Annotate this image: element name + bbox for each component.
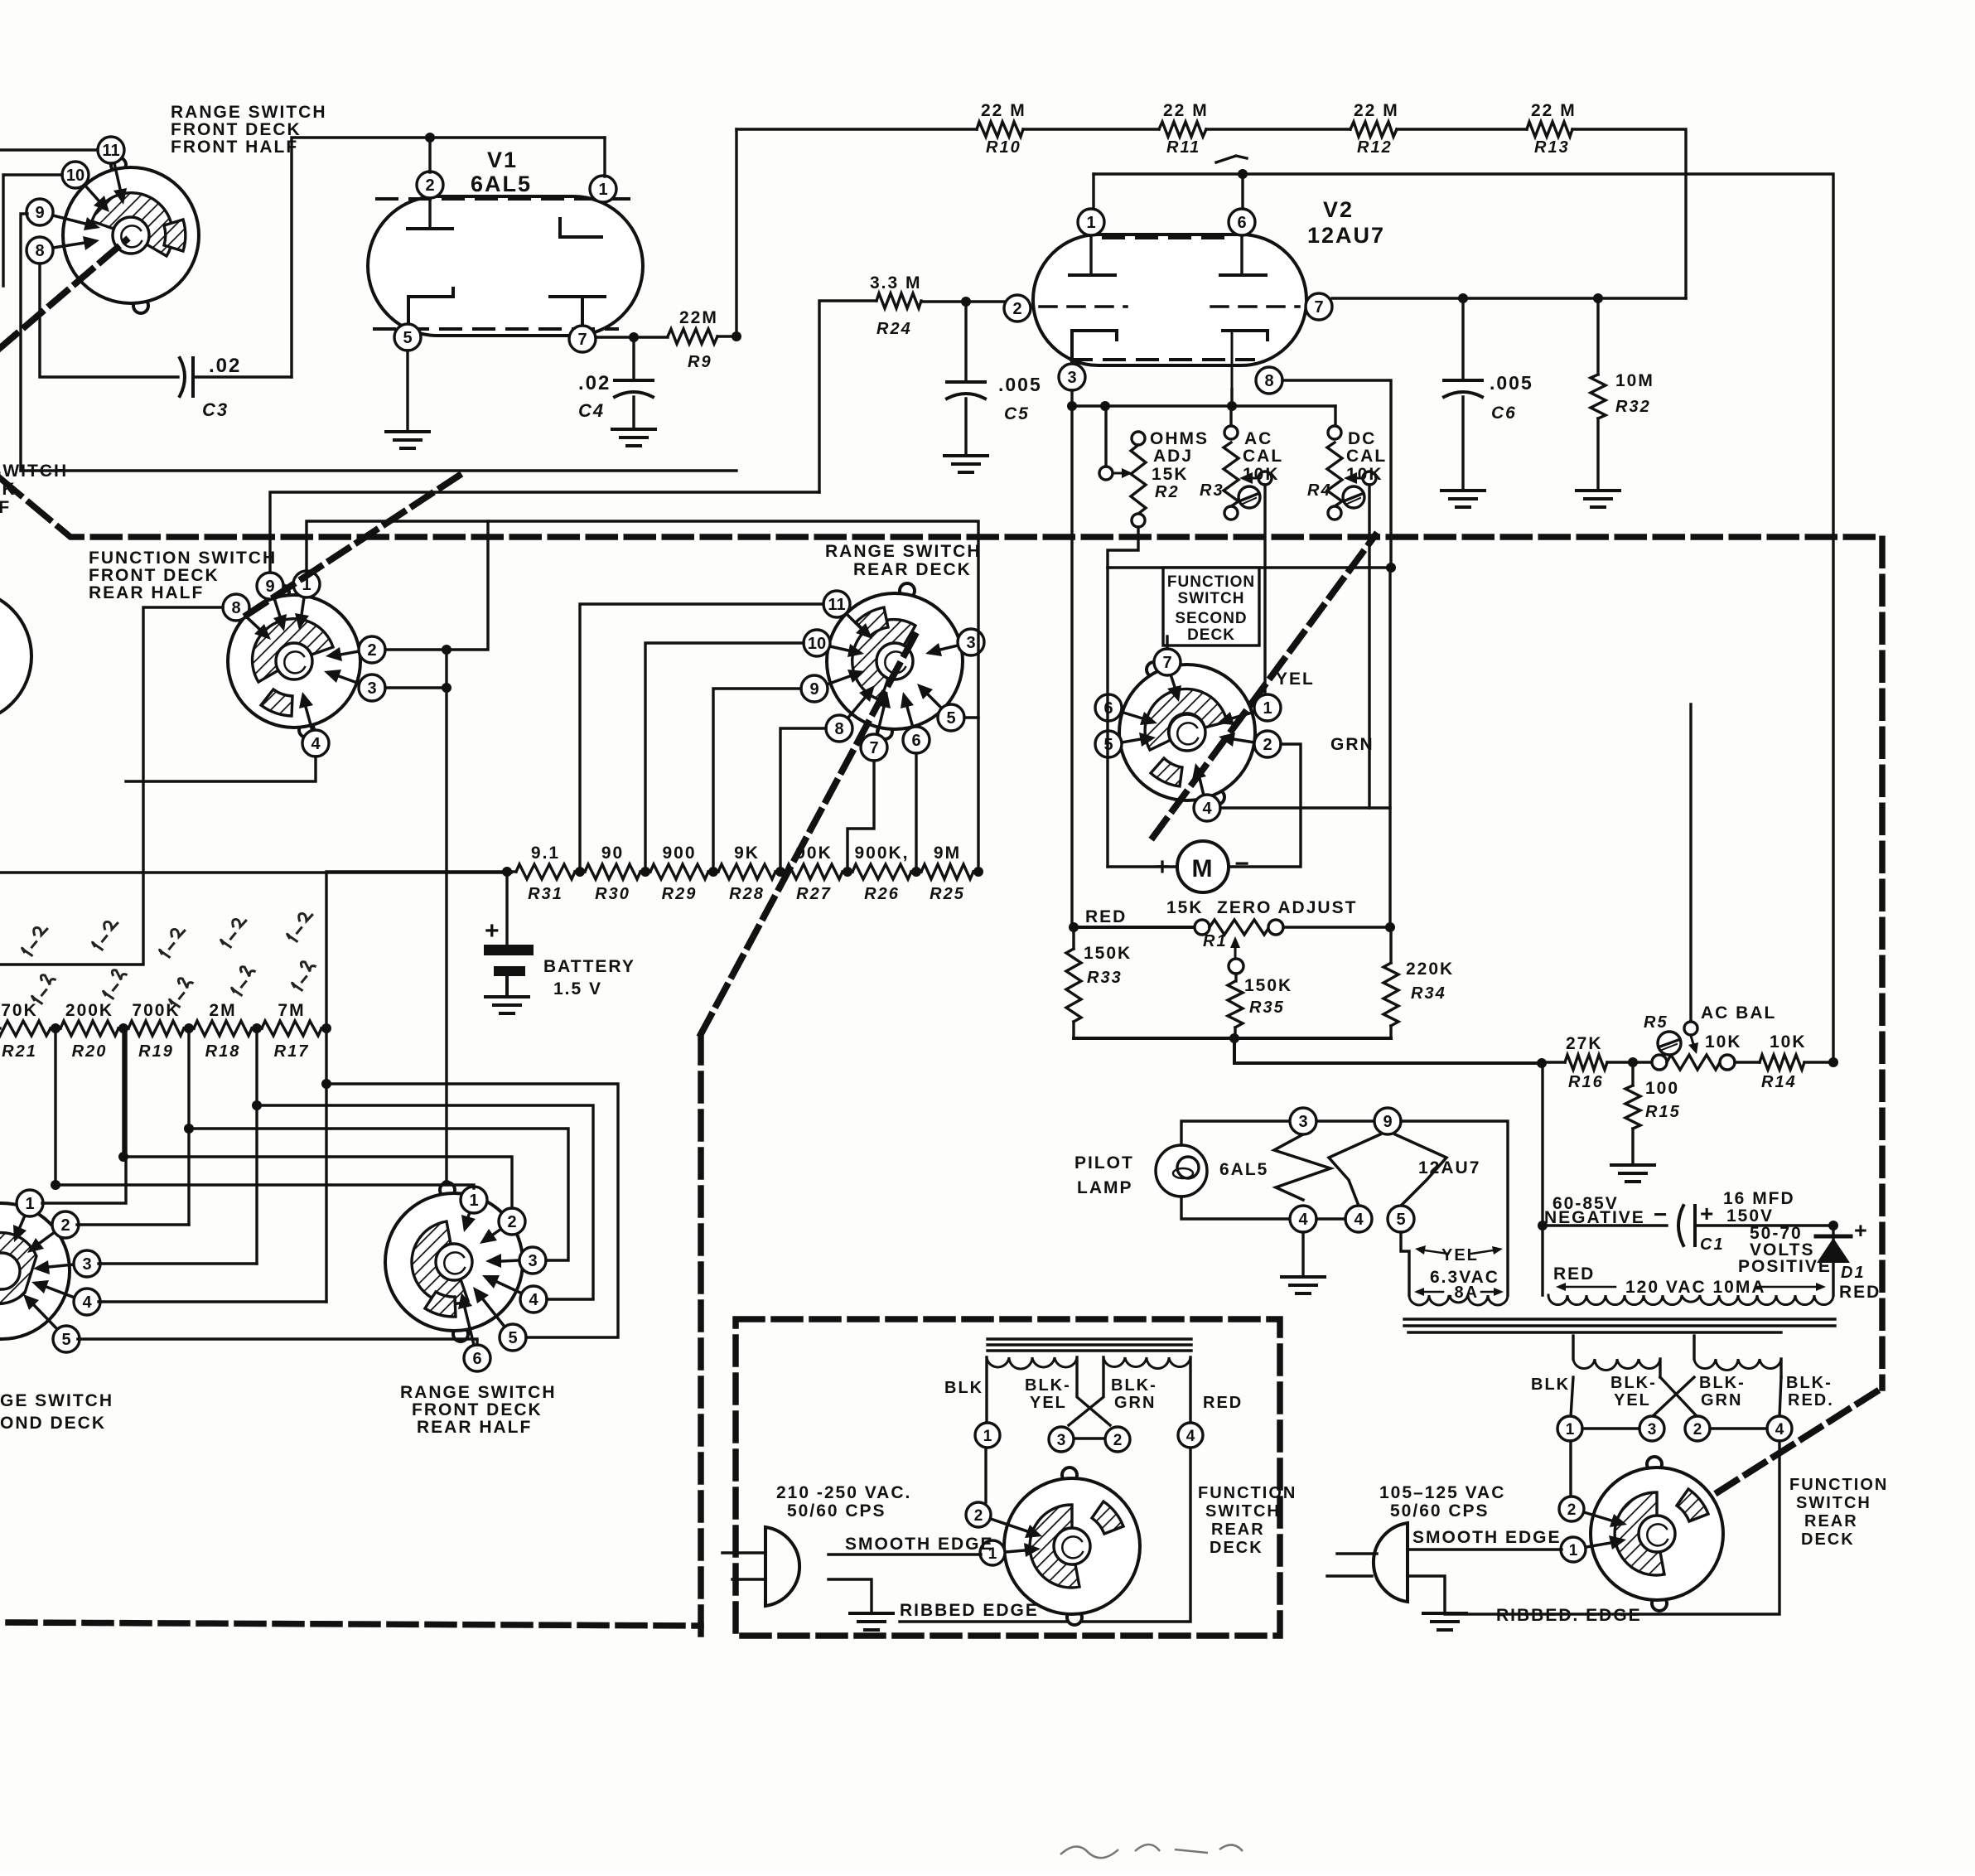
- resistor R16 27K: [1565, 1034, 1607, 1091]
- svg-text:15K: 15K: [1152, 465, 1189, 484]
- rotary switch FUNCTION SWITCH FRONT DECK FRONT HALF (cut at edge): [0, 462, 68, 723]
- svg-text:R34: R34: [1411, 984, 1446, 1003]
- diode D1: [1816, 1218, 1881, 1302]
- svg-text:4: 4: [82, 1293, 92, 1312]
- svg-text:OND DECK: OND DECK: [0, 1414, 106, 1433]
- svg-text:6: 6: [472, 1350, 481, 1368]
- dashed box 210-250VAC option: [736, 1319, 1280, 1636]
- svg-text:+: +: [1854, 1218, 1869, 1243]
- svg-text:FUNCTION SWITCH: FUNCTION SWITCH: [0, 462, 68, 481]
- wire divider taps to lower switches: [54, 1028, 56, 1185]
- svg-text:FUNCTION SWITCH: FUNCTION SWITCH: [89, 549, 277, 568]
- svg-text:R18: R18: [205, 1042, 241, 1061]
- ground at R15: [1611, 1163, 1654, 1167]
- wire FS front pin3 junction: [385, 686, 447, 689]
- wire FS2 pin2 to meter minus: [1229, 744, 1301, 867]
- svg-text:REAR: REAR: [1804, 1512, 1858, 1530]
- svg-text:ADJ: ADJ: [1153, 447, 1193, 466]
- svg-text:FRONT DECK: FRONT DECK: [171, 120, 302, 139]
- svg-text:FUNCTION: FUNCTION: [1167, 573, 1255, 591]
- svg-text:10: 10: [66, 167, 85, 185]
- wire R24 to V2 pin2: [921, 300, 1004, 302]
- svg-text:3: 3: [1298, 1113, 1307, 1131]
- svg-text:PILOT: PILOT: [1074, 1153, 1134, 1172]
- svg-text:V1: V1: [487, 147, 518, 172]
- svg-text:REAR HALF: REAR HALF: [89, 583, 204, 602]
- svg-text:2: 2: [974, 1507, 983, 1525]
- wire second-deck pin3: [99, 1262, 257, 1264]
- svg-text:2: 2: [507, 1213, 516, 1231]
- svg-text:.8A: .8A: [1448, 1284, 1479, 1302]
- svg-text:POSITIVE: POSITIVE: [1738, 1257, 1832, 1276]
- ground at C4: [612, 428, 655, 431]
- svg-text:FRONT HALF: FRONT HALF: [171, 138, 298, 157]
- svg-text:12AU7: 12AU7: [1418, 1158, 1480, 1177]
- wire V1 pin2 riser: [428, 138, 431, 172]
- svg-text:3: 3: [528, 1252, 537, 1270]
- wire FS2 pin7 stub: [1166, 636, 1168, 649]
- svg-text:10: 10: [808, 635, 826, 653]
- svg-text:REAR HALF: REAR HALF: [417, 1418, 532, 1437]
- svg-text:RANGE SWITCH: RANGE SWITCH: [171, 103, 327, 122]
- svg-text:DECK: DECK: [1187, 626, 1235, 644]
- tube V2 12AU7: [1004, 197, 1385, 394]
- svg-text:3: 3: [82, 1255, 91, 1274]
- svg-text:200K: 200K: [65, 1001, 113, 1020]
- winding primary BLK-GRN/RED: [1103, 1357, 1190, 1369]
- svg-text:9: 9: [35, 204, 44, 222]
- svg-text:FRONT DECK: FRONT DECK: [412, 1400, 543, 1419]
- svg-text:50/60 CPS: 50/60 CPS: [1390, 1501, 1490, 1521]
- resistor R28 9K: [713, 844, 780, 903]
- svg-text:3: 3: [367, 679, 376, 698]
- svg-text:R13: R13: [1534, 138, 1570, 157]
- transformer primary core 210 box: [987, 1339, 1191, 1351]
- resistor R14 10K: [1735, 1032, 1833, 1091]
- svg-text:7: 7: [1162, 654, 1171, 672]
- svg-text:BLK: BLK: [1531, 1376, 1570, 1394]
- svg-text:R33: R33: [1087, 969, 1123, 987]
- svg-text:LAMP: LAMP: [1077, 1178, 1133, 1197]
- resistor R15 100: [1625, 1062, 1681, 1165]
- svg-text:1.5 V: 1.5 V: [553, 979, 602, 998]
- svg-text:1: 1: [1569, 1542, 1578, 1559]
- svg-text:9.1: 9.1: [531, 844, 560, 863]
- wire R24 input from divider bus: [819, 301, 876, 492]
- wire V1 pin1 riser: [603, 138, 606, 176]
- svg-text:R29: R29: [662, 885, 698, 903]
- svg-text:GRN: GRN: [1114, 1394, 1156, 1412]
- wire FS front pin8: [0, 607, 223, 965]
- ground at R32: [1577, 489, 1620, 492]
- wire second-deck pin4: [99, 1300, 326, 1303]
- svg-text:.005: .005: [998, 374, 1042, 395]
- svg-text:150V: 150V: [1726, 1206, 1774, 1226]
- svg-text:10K: 10K: [1770, 1032, 1807, 1052]
- wire V2 pin7 grid bus: [1332, 297, 1686, 299]
- svg-text:BLK-: BLK-: [1111, 1376, 1157, 1395]
- svg-text:10K: 10K: [1346, 465, 1383, 484]
- svg-text:9: 9: [1383, 1113, 1392, 1131]
- svg-text:1: 1: [598, 181, 607, 199]
- wire R2 bottom to cathode bus: [1108, 527, 1138, 568]
- wire FS front pin2 to bus riser: [385, 521, 488, 650]
- svg-text:11: 11: [828, 596, 845, 614]
- svg-text:3: 3: [1057, 1432, 1066, 1449]
- svg-text:4: 4: [1354, 1211, 1364, 1229]
- resistor R17 7M: [257, 1001, 326, 1061]
- svg-text:RED: RED: [1553, 1264, 1595, 1284]
- svg-text:2: 2: [367, 641, 376, 660]
- svg-text:+: +: [1700, 1201, 1715, 1226]
- pencil note bottom: [1060, 1845, 1243, 1858]
- svg-text:SWITCH: SWITCH: [1178, 590, 1245, 607]
- svg-text:2: 2: [425, 176, 434, 195]
- wire second-deck pin1: [42, 1028, 126, 1203]
- switch shaft dashed rear deck: [701, 630, 918, 1034]
- svg-text:8: 8: [35, 242, 44, 260]
- wire term4 to ribbed edge: [900, 1448, 1190, 1622]
- wires primary to terminals 105: [1571, 1377, 1573, 1417]
- svg-text:22 M: 22 M: [1163, 101, 1209, 120]
- wire lamp bottom to pin4: [1181, 1197, 1290, 1219]
- svg-text:CAL: CAL: [1346, 447, 1387, 466]
- svg-text:C3: C3: [202, 399, 229, 420]
- svg-text:R12: R12: [1357, 138, 1393, 157]
- svg-text:.02: .02: [578, 372, 611, 394]
- svg-text:BLK: BLK: [944, 1379, 983, 1397]
- svg-text:R11: R11: [1166, 138, 1200, 157]
- terminal circles 210: [975, 1423, 1000, 1448]
- svg-text:DECK: DECK: [1801, 1530, 1855, 1549]
- svg-text:RANGE SWITCH: RANGE SWITCH: [825, 542, 982, 561]
- wire rear deck pin11 to divider: [580, 604, 823, 872]
- svg-text:R9: R9: [688, 353, 712, 371]
- svg-text:3.3 M: 3.3 M: [870, 273, 922, 293]
- tube V1 6AL5: [368, 147, 643, 352]
- capacitor C1 16MFD 150V: [1543, 1189, 1833, 1254]
- svg-text:6AL5: 6AL5: [471, 172, 532, 196]
- svg-text:.005: .005: [1490, 372, 1533, 394]
- wire rear deck pin5 stub: [964, 716, 978, 718]
- ground at V1 pin5: [386, 430, 429, 433]
- wire pin8 cathode lead: [1230, 389, 1233, 406]
- svg-text:105–125 VAC: 105–125 VAC: [1379, 1483, 1505, 1502]
- wire R17 right to battery bus: [326, 872, 507, 1028]
- heater 12AU7: [1329, 1108, 1480, 1232]
- wire pin3 to pin9: [1316, 1119, 1374, 1122]
- svg-text:YEL: YEL: [1441, 1246, 1479, 1264]
- wire meter plus lead: [1108, 865, 1177, 868]
- rotary switch FUNCTION SWITCH REAR DECK (210 box): [966, 1467, 1140, 1625]
- svg-text:3: 3: [1067, 369, 1076, 387]
- resistor R12 22M: [1350, 101, 1399, 157]
- wire plug lower to ground 210: [828, 1579, 872, 1611]
- svg-text:1: 1: [1263, 699, 1272, 718]
- AC plug 210: [722, 1527, 799, 1606]
- svg-text:GRN: GRN: [1330, 735, 1374, 754]
- svg-text:2: 2: [1012, 300, 1021, 318]
- svg-text:R25: R25: [930, 885, 965, 903]
- svg-text:RED: RED: [1085, 907, 1127, 926]
- svg-text:SWITCH: SWITCH: [1796, 1494, 1871, 1512]
- svg-text:YEL: YEL: [1030, 1394, 1067, 1412]
- svg-text:1: 1: [1566, 1421, 1575, 1438]
- svg-text:6: 6: [911, 732, 920, 750]
- svg-text:6AL5: 6AL5: [1219, 1160, 1268, 1179]
- wires primary to terminals 210: [985, 1357, 987, 1423]
- wire left bus to battery row: [0, 871, 511, 873]
- resistor R25 9M: [916, 844, 978, 903]
- wire tap2 to RS rear-half pin2: [123, 1157, 512, 1208]
- svg-text:YEL: YEL: [1276, 670, 1315, 689]
- svg-text:FUNCTION: FUNCTION: [1789, 1476, 1888, 1494]
- svg-text:SWITCH: SWITCH: [1205, 1502, 1281, 1521]
- svg-text:90: 90: [601, 844, 624, 863]
- winding 6.3VAC: [1409, 1245, 1508, 1305]
- svg-text:4: 4: [529, 1291, 538, 1309]
- wire plug to switch pin1 210: [828, 1553, 981, 1555]
- svg-text:FUNCTION: FUNCTION: [1198, 1484, 1297, 1502]
- svg-text:D1: D1: [1841, 1264, 1866, 1282]
- svg-text:−: −: [1234, 850, 1251, 878]
- rotary switch S1 RANGE SWITCH FRONT DECK FRONT HALF: [27, 103, 327, 313]
- svg-text:R24: R24: [876, 320, 912, 338]
- svg-text:9: 9: [809, 680, 818, 699]
- svg-text:BLK-: BLK-: [1610, 1374, 1657, 1392]
- svg-text:120 VAC 10MA: 120 VAC 10MA: [1625, 1278, 1766, 1297]
- wire term1 to switch pin2: [984, 1448, 987, 1502]
- svg-text:RED.: RED.: [1788, 1391, 1834, 1409]
- wire tap3 to RS rear-half pin3: [189, 1129, 568, 1260]
- svg-text:R3: R3: [1200, 481, 1224, 500]
- resistor R19 700K: [123, 1001, 189, 1061]
- winding primary BLK/BLK-YEL: [987, 1357, 1077, 1369]
- wire rear deck pin10 to divider: [645, 643, 804, 872]
- svg-text:1: 1: [1086, 214, 1095, 232]
- wire tap5 to RS rear-half pin5: [326, 1084, 618, 1337]
- svg-text:2M: 2M: [209, 1001, 236, 1020]
- svg-text:GRN: GRN: [1701, 1391, 1742, 1409]
- resistor R10 22M: [977, 101, 1026, 157]
- potentiometer R1 15K ZERO ADJUST: [1074, 898, 1390, 974]
- svg-text:5: 5: [946, 709, 955, 728]
- svg-text:R19: R19: [138, 1042, 174, 1061]
- pilot lamp: [1074, 1145, 1207, 1197]
- capacitor C3 .02: [180, 355, 292, 420]
- svg-text:R21: R21: [2, 1042, 37, 1061]
- wire rear deck pin8 to divider: [780, 728, 826, 872]
- svg-text:R32: R32: [1615, 398, 1651, 416]
- svg-text:RED: RED: [1203, 1394, 1243, 1412]
- switch shaft dashed FS second deck: [1153, 535, 1375, 837]
- wire D1 to winding: [1832, 1226, 1834, 1295]
- resistor R9 22M: [668, 308, 718, 371]
- rotary switch FUNCTION SWITCH SECOND DECK: [1095, 568, 1281, 821]
- terminal circles 105: [1557, 1416, 1582, 1441]
- svg-text:7: 7: [869, 739, 878, 757]
- chassis dashed boundary: [0, 478, 1882, 1634]
- svg-text:1: 1: [983, 1428, 992, 1445]
- wire pin9 down to bus A: [21, 214, 27, 471]
- wire pin11 to left edge: [0, 148, 98, 151]
- wire R9 to node: [717, 335, 736, 337]
- svg-text:12AU7: 12AU7: [1307, 223, 1385, 248]
- svg-text:2: 2: [1693, 1421, 1702, 1438]
- wire bus A node to R9 junction: [21, 469, 736, 471]
- svg-text:R28: R28: [729, 885, 765, 903]
- svg-text:C4: C4: [578, 400, 605, 421]
- svg-text:22 M: 22 M: [1531, 101, 1577, 120]
- resistor R24 3.3M: [870, 273, 922, 338]
- wire FS front pin4: [126, 757, 316, 781]
- svg-text:7: 7: [577, 331, 587, 349]
- svg-text:4: 4: [1202, 800, 1212, 818]
- rotary switch FUNCTION SWITCH FRONT DECK REAR HALF: [89, 549, 385, 757]
- svg-text:R1: R1: [1203, 932, 1228, 950]
- svg-text:REAR DECK: REAR DECK: [853, 560, 972, 579]
- rotary switch RANGE SWITCH SECOND DECK (cut at edge): [0, 1190, 113, 1433]
- svg-text:100: 100: [1645, 1079, 1679, 1098]
- wire GRN/R34 riser: [1388, 568, 1391, 927]
- battery 1.5V: [484, 917, 635, 998]
- wire V2 plate bus to B+ rail: [1094, 174, 1833, 1061]
- resistor R11 22M: [1159, 101, 1209, 157]
- svg-text:CAL: CAL: [1243, 447, 1283, 466]
- resistor R31 9.1: [511, 844, 580, 903]
- svg-text:C1: C1: [1700, 1235, 1725, 1254]
- svg-text:16 MFD: 16 MFD: [1723, 1189, 1795, 1208]
- ground at plug 210: [850, 1612, 893, 1615]
- svg-text:SMOOTH EDGE: SMOOTH EDGE: [1412, 1528, 1562, 1547]
- wire pin8 down to C3: [40, 264, 178, 377]
- transformer core: [1404, 1319, 1835, 1332]
- svg-text:9M: 9M: [934, 844, 961, 863]
- svg-text:15K: 15K: [1166, 898, 1204, 917]
- wire plug lower to ground 105: [1408, 1576, 1445, 1611]
- svg-text:R20: R20: [72, 1042, 108, 1061]
- svg-text:BLK-: BLK-: [1025, 1376, 1071, 1395]
- svg-text:22M: 22M: [679, 308, 718, 327]
- svg-text:R30: R30: [595, 885, 630, 903]
- svg-text:5: 5: [403, 329, 412, 347]
- svg-text:REAR: REAR: [1211, 1521, 1265, 1539]
- svg-text:5: 5: [508, 1329, 517, 1347]
- ground at C5: [944, 454, 987, 457]
- wire bottom of divider network: [1074, 1037, 1391, 1040]
- wire V1 pin5 to ground: [406, 351, 408, 432]
- svg-text:C6: C6: [1491, 404, 1517, 423]
- svg-text:R15: R15: [1645, 1103, 1681, 1121]
- capacitor C4 .02: [578, 337, 653, 429]
- svg-text:7M: 7M: [278, 1001, 305, 1020]
- wire FS front pin9 riser to R24 bus: [270, 492, 819, 573]
- wire negative rail: [1541, 1063, 1543, 1295]
- svg-text:4: 4: [1775, 1421, 1784, 1438]
- switch shaft dashed S1: [0, 240, 126, 348]
- wire second-deck pin2: [77, 1223, 189, 1226]
- wire to bias rail: [1234, 1038, 1542, 1063]
- svg-text:210 -250 VAC.: 210 -250 VAC.: [776, 1483, 911, 1502]
- switch shaft dashed FS rear deck right: [1690, 1388, 1882, 1510]
- AC plug 105: [1327, 1523, 1408, 1602]
- svg-text:50/60 CPS: 50/60 CPS: [787, 1501, 886, 1521]
- svg-text:10K: 10K: [1243, 465, 1280, 484]
- wire second-deck pin5 to rear-half pin6: [78, 1339, 477, 1345]
- wire tap1 to RS rear-half pin1: [56, 1185, 474, 1188]
- svg-text:RIBBED EDGE: RIBBED EDGE: [900, 1601, 1039, 1620]
- resistor R32 10M: [1591, 298, 1654, 491]
- switch shaft dashed FS front: [247, 472, 464, 615]
- resistor R13 22M: [1527, 101, 1577, 157]
- svg-text:R17: R17: [274, 1042, 310, 1061]
- svg-text:AC: AC: [1244, 429, 1272, 448]
- wire V1 pin7 to R9: [596, 336, 668, 338]
- capacitor C6 .005: [1444, 298, 1533, 491]
- rotary switch RANGE SWITCH FRONT DECK REAR HALF: [385, 1182, 557, 1437]
- svg-text:3: 3: [1648, 1421, 1657, 1438]
- svg-text:−: −: [1654, 1202, 1668, 1227]
- wire pins2/3 drop to lower selector: [445, 650, 447, 1185]
- winding primary BLK/BLK-YEL 105: [1573, 1336, 1660, 1377]
- svg-text:OHMS: OHMS: [1150, 429, 1209, 448]
- svg-text:2: 2: [1113, 1432, 1123, 1449]
- svg-text:+: +: [485, 917, 501, 945]
- svg-text:R27: R27: [796, 885, 832, 903]
- svg-text:FRONT DECK: FRONT DECK: [89, 566, 220, 585]
- svg-text:RANGE SWITCH: RANGE SWITCH: [400, 1383, 557, 1402]
- svg-text:DC: DC: [1348, 429, 1376, 448]
- ground at battery: [485, 995, 529, 998]
- svg-text:GE SWITCH: GE SWITCH: [0, 1391, 113, 1410]
- potentiometer R2 OHMS ADJ 15K: [1099, 406, 1209, 527]
- resistor R34 220K: [1383, 927, 1454, 1038]
- svg-text:900: 900: [662, 844, 696, 863]
- svg-text:.02: .02: [209, 355, 241, 377]
- wire RED node: [1069, 922, 1079, 932]
- svg-text:BATTERY: BATTERY: [543, 957, 635, 976]
- svg-text:2: 2: [60, 1216, 70, 1235]
- svg-text:150K: 150K: [1244, 976, 1292, 995]
- wire V2 pin8 to R34 branch: [1282, 380, 1391, 566]
- resistor R29 900: [645, 844, 713, 903]
- svg-text:R31: R31: [528, 885, 563, 903]
- svg-text:DECK: DECK: [1210, 1539, 1263, 1557]
- wire pin9 to 6.3VAC right: [1401, 1121, 1508, 1295]
- wire rear deck pin7 to divider: [847, 761, 874, 872]
- pencil scribbles: [21, 921, 48, 957]
- svg-text:FRONT HALF: FRONT HALF: [0, 498, 11, 517]
- wire pin5 to 6.3VAC left: [1401, 1232, 1409, 1295]
- svg-text:V2: V2: [1323, 197, 1354, 222]
- svg-text:4: 4: [311, 735, 321, 753]
- ground at C6: [1441, 489, 1485, 492]
- wire FS2 pin4 GRN: [1220, 806, 1390, 809]
- svg-text:M: M: [1192, 855, 1214, 882]
- svg-text:R35: R35: [1249, 998, 1285, 1017]
- wire pin4 pair to ground: [1316, 1217, 1345, 1220]
- svg-text:2: 2: [1263, 736, 1272, 754]
- svg-text:5: 5: [1396, 1211, 1405, 1229]
- winding primary BLK-GRN/BLK-RED 105: [1694, 1336, 1781, 1377]
- wire term1 to switch pin2 105: [1569, 1441, 1572, 1497]
- resistor R21 70K: [0, 1001, 56, 1061]
- potentiometer R4 DC CAL 10K: [1307, 426, 1387, 520]
- resistor R27 90K: [780, 844, 847, 903]
- check mark annotation: [1216, 156, 1247, 162]
- svg-text:SMOOTH EDGE: SMOOTH EDGE: [845, 1535, 994, 1554]
- svg-text:R14: R14: [1761, 1073, 1797, 1091]
